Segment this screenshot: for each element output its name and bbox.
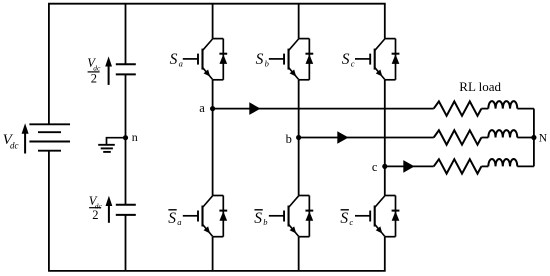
- svg-text:c: c: [351, 59, 355, 69]
- wire: leg a mid section (upper IGBT to lower IGBT) through node a: [212, 80, 214, 196]
- svg-text:S: S: [170, 51, 178, 68]
- wire: leg b from lower IGBT to bottom rail: [298, 237, 300, 271]
- svg-text:2: 2: [91, 72, 97, 86]
- resistor Ra (phase a load resistance): [434, 101, 482, 115]
- svg-text:b: b: [265, 59, 269, 69]
- arrow: lower capacitor voltage arrow (up): [106, 196, 113, 223]
- label Sc: [342, 51, 355, 69]
- transistor Sc (IGBT): [355, 39, 396, 80]
- label Sa: [170, 51, 183, 69]
- wire: Rc to Lc: [481, 165, 488, 167]
- inductor La (phase a load inductance): [488, 101, 517, 108]
- label S̄c: [340, 210, 353, 227]
- node a (phase a output junction): [210, 106, 215, 111]
- capacitor C1 (Vdc/2 upper): [116, 64, 136, 74]
- svg-text:S: S: [254, 210, 262, 227]
- wire: Rb to Lb: [481, 137, 488, 139]
- wire: La to neutral bus: [517, 108, 534, 110]
- arrow: Vdc polarity arrow (up): [22, 123, 29, 153]
- label S̄a: [168, 210, 181, 227]
- diode Dc2 (freewheeling, antiparallel with S̄c): [392, 196, 400, 237]
- svg-text:dc: dc: [10, 140, 19, 150]
- wire: phase b output line to RL load: [299, 137, 434, 139]
- wire: phase a output line to RL load: [213, 108, 434, 110]
- svg-text:N: N: [539, 133, 548, 145]
- svg-text:RL load: RL load: [459, 79, 501, 94]
- wire: capacitor leg, top rail to C1: [125, 4, 127, 65]
- node n (DC midpoint junction): [123, 135, 128, 140]
- node c (phase c output junction): [382, 164, 387, 169]
- diode Db1 (freewheeling, antiparallel with Sb): [305, 39, 313, 80]
- wire: stub from node n to ground: [107, 138, 126, 145]
- svg-text:a: a: [179, 59, 183, 69]
- label Sb: [256, 51, 269, 69]
- resistor Rc (phase c load resistance): [434, 159, 482, 173]
- svg-text:S: S: [168, 210, 176, 227]
- wire: left rail lower (battery - to bottom rail): [48, 151, 50, 271]
- diode Da2 (freewheeling, antiparallel with S̄a): [219, 196, 227, 237]
- wire: leg b mid section (upper IGBT to lower IGBT) through node b: [298, 80, 300, 196]
- label Vdc/2 (lower): [89, 194, 103, 222]
- arrow: phase b current direction: [337, 131, 348, 144]
- resistor Rb (phase b load resistance): [434, 130, 482, 144]
- label Vdc: [3, 132, 19, 151]
- wire: neutral bus (right vertical): [533, 109, 535, 167]
- svg-text:b: b: [286, 132, 292, 146]
- transistor Sa (IGBT): [183, 39, 224, 80]
- wire: Lc to neutral bus: [517, 165, 534, 167]
- wire: leg c from top rail to upper IGBT: [384, 4, 386, 39]
- wire: leg c mid section (upper IGBT to lower IGBT) through node c: [384, 80, 386, 196]
- diode Db2 (freewheeling, antiparallel with S̄b): [305, 196, 313, 237]
- capacitor C2 (Vdc/2 lower): [116, 205, 136, 215]
- diode Da1 (freewheeling, antiparallel with Sa): [219, 39, 227, 80]
- wire: leg b from top rail to upper IGBT: [298, 4, 300, 39]
- node b (phase b output junction): [296, 135, 301, 140]
- svg-text:S: S: [340, 210, 348, 227]
- wire: top DC rail: [48, 3, 386, 5]
- svg-text:b: b: [263, 217, 267, 227]
- arrow: phase a current direction: [249, 102, 260, 115]
- node N (load neutral): [531, 135, 536, 140]
- inductor Lb (phase b load inductance): [488, 130, 517, 137]
- transistor Sb (IGBT): [269, 39, 310, 80]
- wire: capacitor leg, C1 to C2 (midpoint n): [125, 74, 127, 204]
- wire: leg a from lower IGBT to bottom rail: [212, 237, 214, 271]
- svg-text:c: c: [372, 160, 378, 174]
- transistor S̄c (IGBT): [355, 196, 396, 237]
- wire: left rail upper (battery + to top rail): [48, 4, 50, 125]
- svg-text:2: 2: [92, 208, 98, 222]
- battery Vdc (DC source): [29, 124, 70, 150]
- inductor Lc (phase c load inductance): [488, 159, 517, 166]
- wire: phase c output line to RL load: [385, 165, 434, 167]
- svg-text:c: c: [349, 217, 353, 227]
- arrow: upper capacitor voltage arrow (up): [105, 56, 112, 85]
- wire: leg a from top rail to upper IGBT: [212, 4, 214, 39]
- ground (earth symbol at node n): [98, 145, 115, 152]
- wire: Ra to La: [481, 108, 488, 110]
- svg-text:S: S: [342, 51, 350, 68]
- label Vdc/2 (upper): [87, 56, 101, 86]
- svg-text:S: S: [256, 51, 264, 68]
- transistor S̄b (IGBT): [269, 196, 310, 237]
- wire: bottom DC rail: [48, 270, 386, 272]
- svg-text:a: a: [177, 217, 181, 227]
- diode Dc1 (freewheeling, antiparallel with Sc): [392, 39, 400, 80]
- arrow: phase c current direction: [403, 160, 414, 173]
- wire: Lb to neutral bus: [517, 137, 534, 139]
- wire: capacitor leg, C2 to bottom rail: [125, 215, 127, 271]
- svg-text:n: n: [132, 130, 138, 144]
- svg-text:a: a: [199, 101, 205, 115]
- wire: leg c from lower IGBT to bottom rail: [384, 237, 386, 271]
- label S̄b: [254, 210, 267, 227]
- transistor S̄a (IGBT): [183, 196, 224, 237]
